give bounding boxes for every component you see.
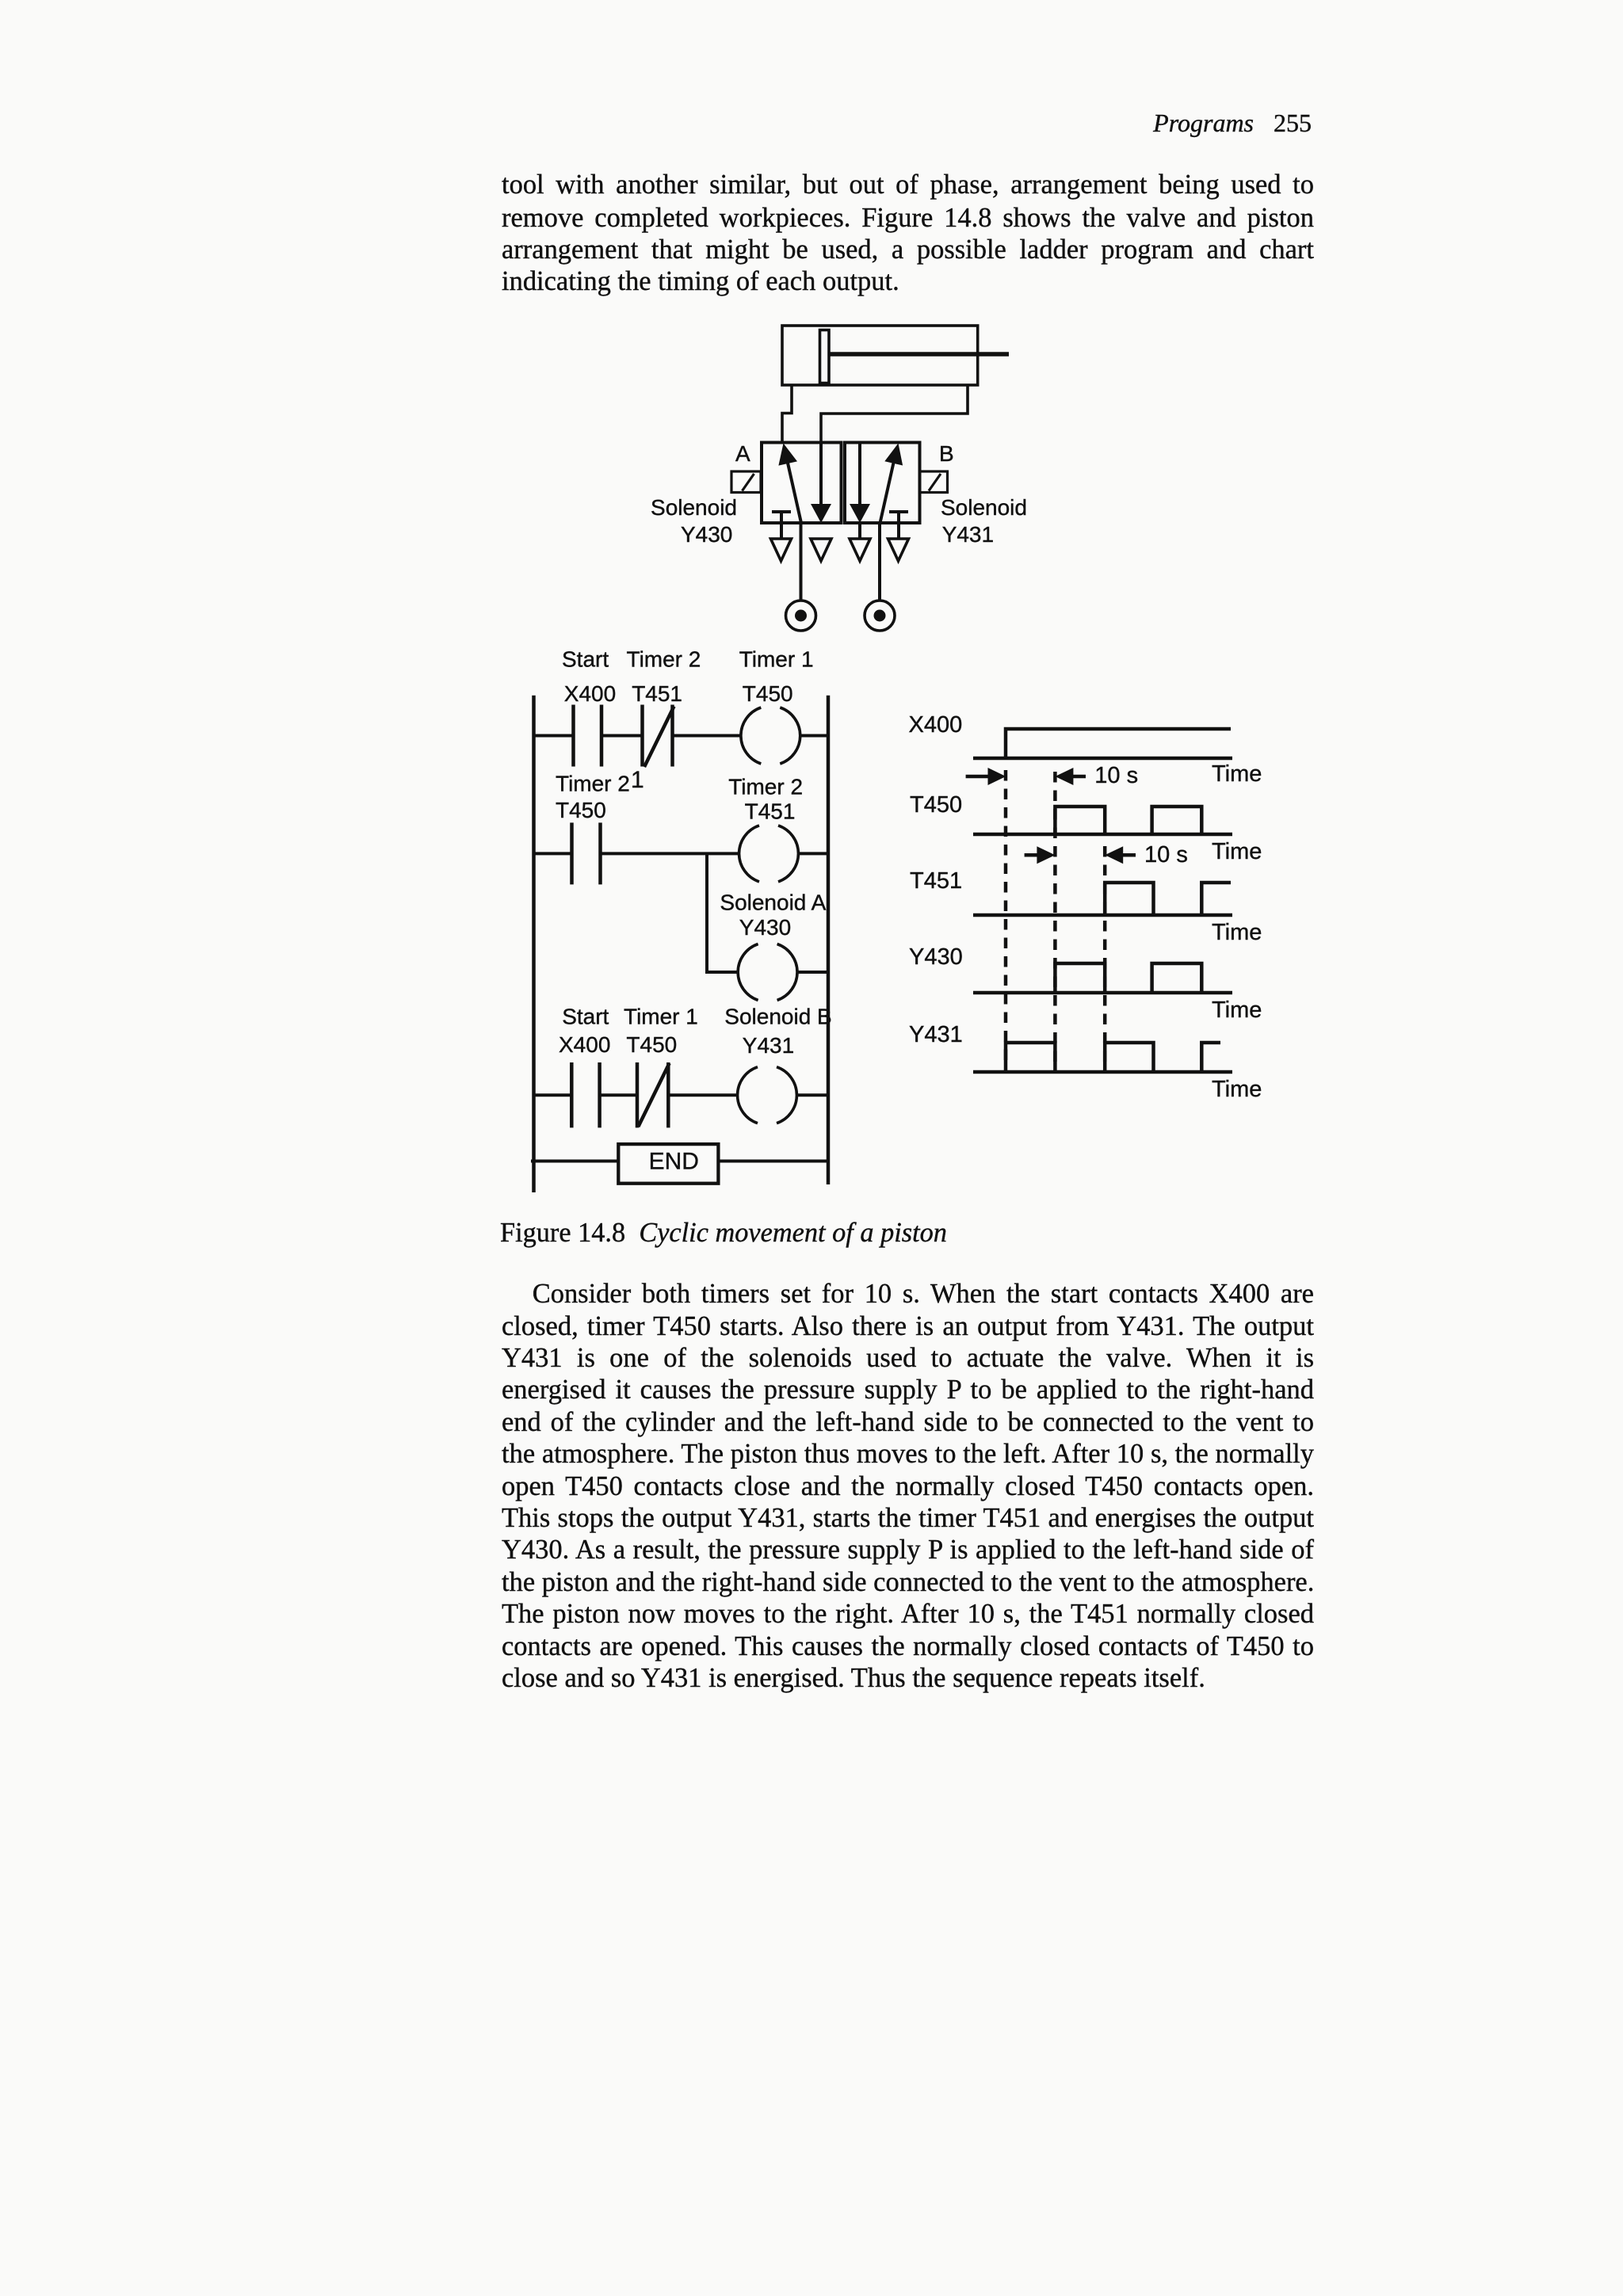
svg-text:END: END <box>649 1148 699 1174</box>
wire pipe A from cylinder left port to valve port A <box>782 385 792 442</box>
vent triangle 1 <box>771 539 792 561</box>
svg-text:Time: Time <box>1212 920 1262 945</box>
svg-text:Y430: Y430 <box>909 944 963 970</box>
svg-text:Solenoid: Solenoid <box>941 495 1027 520</box>
svg-text:Start: Start <box>562 1005 609 1029</box>
wire pipe B from cylinder right port to valve port B <box>821 385 968 442</box>
right box flow arrow P to B <box>880 444 903 524</box>
svg-text:T450: T450 <box>910 792 962 818</box>
left power rail <box>532 696 536 1192</box>
svg-text:Y430: Y430 <box>681 522 732 547</box>
label Timer 2 T451 rung 1 <box>627 647 701 707</box>
Time axis label 4 <box>1212 997 1262 1023</box>
svg-text:Solenoid B: Solenoid B <box>724 1005 831 1029</box>
svg-text:Time: Time <box>1212 1077 1262 1102</box>
label Timer 2 T451 coil rung 2 <box>728 774 803 823</box>
rung 4 wire right <box>718 1160 828 1163</box>
paragraph 1 <box>502 0 1314 317</box>
label Timer 1 T450 coil rung 1 <box>739 647 814 707</box>
coil Y431 (solenoid B) <box>738 1067 797 1123</box>
dashed timing reference line 1 <box>1004 770 1008 1063</box>
left box flow arrow B to vent <box>811 443 831 523</box>
svg-text:Timer 1: Timer 1 <box>624 1005 698 1029</box>
svg-text:Y430: Y430 <box>739 915 791 940</box>
svg-text:T450: T450 <box>743 681 793 706</box>
svg-text:10 s: 10 s <box>1094 763 1138 788</box>
dashed timing reference line 2 <box>1053 772 1057 1063</box>
rung 2 wire to coil <box>601 852 739 855</box>
label Solenoid A Y430 coil <box>720 891 826 940</box>
contact T450 normally closed rung 3 <box>637 1062 670 1127</box>
rung 1 wire mid <box>601 734 643 738</box>
vent triangle 4 <box>888 539 909 561</box>
rung 3 wire to coil <box>668 1093 737 1097</box>
rung 3 wire to rail <box>797 1093 828 1097</box>
svg-text:Time: Time <box>1212 997 1262 1023</box>
rung 3 wire left <box>534 1093 572 1097</box>
timing diagram <box>966 729 1232 1072</box>
svg-text:Solenoid: Solenoid <box>651 495 737 520</box>
node Y430 label <box>909 944 963 970</box>
rung 3 wire mid <box>600 1093 637 1097</box>
value label 10 s row 2 <box>1144 842 1188 868</box>
rung 1 wire left <box>534 734 574 738</box>
right box flow arrow A to vent <box>850 443 870 539</box>
X400 time axis <box>973 757 1232 761</box>
svg-text:Timer 2: Timer 2 <box>627 647 701 672</box>
right power rail <box>827 696 831 1184</box>
Time axis label 5 <box>1212 1077 1262 1102</box>
label Timer 21 T450 rung 2 <box>556 767 644 822</box>
left pressure supply line <box>800 523 803 601</box>
svg-text:Solenoid A: Solenoid A <box>720 891 826 915</box>
node A label <box>735 441 750 466</box>
coil Y430 (solenoid A) <box>738 944 797 1001</box>
svg-text:1: 1 <box>631 767 644 793</box>
vent triangle 2 <box>811 539 831 561</box>
branch wire down from rung 2 <box>707 853 738 972</box>
label Solenoid B Y431 coil <box>724 1005 831 1058</box>
Time axis label 2 <box>1212 839 1262 864</box>
Time axis label 1 <box>1212 761 1262 787</box>
left box flow arrow P to A <box>778 444 801 524</box>
svg-text:Y431: Y431 <box>743 1033 794 1058</box>
running header: Programs 255 <box>1153 109 1312 138</box>
10 s arrow left row 1 <box>1055 768 1086 785</box>
left pressure source symbol <box>786 601 816 631</box>
T451 waveform <box>1105 883 1231 915</box>
left box blocked port T symbol <box>772 512 791 539</box>
10 s arrow right row 1 <box>966 768 1006 785</box>
label END <box>649 1148 699 1174</box>
svg-text:Start: Start <box>562 647 609 672</box>
Time axis label 3 <box>1212 920 1262 945</box>
paragraph 2 <box>502 1278 1314 1694</box>
X400 waveform <box>1006 729 1231 758</box>
valve body right box (position actuated by solenoid Y431) <box>845 443 920 524</box>
svg-text:Timer 2: Timer 2 <box>556 771 630 795</box>
svg-text:T451: T451 <box>745 799 796 824</box>
rung 2 wire to rail <box>799 852 828 855</box>
node X400 label <box>909 712 963 738</box>
T450 waveform <box>1055 807 1201 834</box>
svg-text:T451: T451 <box>910 868 962 894</box>
svg-text:X400: X400 <box>564 681 616 706</box>
contact X400 rung 3 <box>571 1062 599 1127</box>
Y431 time axis <box>973 1070 1232 1074</box>
valve body left box (position actuated by solenoid Y430) <box>762 443 842 524</box>
solenoid Y430 label <box>651 495 737 547</box>
svg-text:Timer 2: Timer 2 <box>728 774 803 799</box>
10 s arrow right row 2 <box>1025 846 1056 864</box>
10 s arrow left row 2 <box>1105 846 1136 864</box>
branch wire to rail <box>798 971 828 974</box>
right pressure source symbol <box>865 601 895 631</box>
node Y431 label <box>909 1022 963 1047</box>
END box <box>618 1144 718 1184</box>
coil T451 (timer 2) <box>739 826 799 882</box>
svg-text:Time: Time <box>1212 761 1262 787</box>
rung 2 wire left <box>534 852 572 855</box>
label Start X400 rung 1 <box>562 647 616 707</box>
node T451 label <box>910 868 962 894</box>
T450 time axis <box>973 833 1232 837</box>
svg-text:Time: Time <box>1212 839 1262 864</box>
T451 time axis <box>973 913 1232 917</box>
contact X400 rung 1 <box>574 705 602 767</box>
svg-text:B: B <box>939 441 954 466</box>
Y430 waveform <box>1055 963 1201 993</box>
rung 1 wire to coil <box>673 734 742 738</box>
label Timer 1 T450 rung 3 <box>624 1005 698 1057</box>
svg-text:Timer 1: Timer 1 <box>739 647 814 672</box>
contact T450 rung 2 <box>572 822 601 884</box>
vent triangle 3 <box>850 539 870 561</box>
svg-text:T450: T450 <box>626 1032 677 1057</box>
figure caption <box>500 1219 947 1246</box>
right pressure supply line <box>878 523 881 601</box>
svg-text:X400: X400 <box>909 712 963 738</box>
solenoid Y431 symbol <box>920 471 948 493</box>
solenoid Y431 label <box>941 495 1027 547</box>
dashed timing reference line 3 <box>1103 846 1107 1063</box>
svg-text:T451: T451 <box>632 681 682 706</box>
value label 10 s row 1 <box>1094 763 1138 788</box>
Y430 time axis <box>973 991 1232 995</box>
svg-text:X400: X400 <box>559 1032 610 1057</box>
rung 1 wire to rail <box>800 734 828 738</box>
node B label <box>939 441 954 466</box>
contact T451 normally closed rung 1 <box>643 705 674 768</box>
piston rod <box>829 352 1009 357</box>
svg-text:Y431: Y431 <box>909 1022 963 1047</box>
rung 4 wire left <box>531 1160 618 1163</box>
svg-text:10 s: 10 s <box>1144 842 1188 868</box>
right box blocked port T symbol <box>889 512 908 539</box>
coil T450 (timer 1) <box>741 707 800 764</box>
solenoid Y430 symbol <box>731 471 761 493</box>
piston <box>820 330 830 383</box>
node T450 label <box>910 792 962 818</box>
svg-text:Y431: Y431 <box>942 522 994 547</box>
label Start X400 rung 3 <box>559 1005 610 1057</box>
ladder diagram <box>531 696 828 1192</box>
Y431 waveform <box>1006 1043 1220 1072</box>
svg-text:T450: T450 <box>556 798 606 822</box>
cylinder body <box>782 326 978 385</box>
svg-text:A: A <box>735 441 750 466</box>
